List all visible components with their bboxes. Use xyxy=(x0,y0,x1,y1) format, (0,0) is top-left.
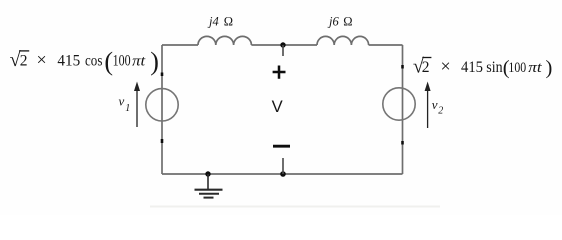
svg-text:1: 1 xyxy=(125,103,130,114)
ground xyxy=(207,174,209,189)
svg-text:V: V xyxy=(272,97,283,116)
svg-text:415: 415 xyxy=(57,53,80,70)
svg-text:415: 415 xyxy=(461,59,483,76)
source V2 circle xyxy=(383,88,415,120)
polarity tick upper right wire xyxy=(401,65,404,69)
V minus sign xyxy=(273,145,290,148)
polarity tick upper left wire xyxy=(161,73,164,77)
wire: top-left horizontal segment xyxy=(162,44,198,46)
polarity tick lower left wire xyxy=(161,139,164,143)
wire: segment between coil1 and mid node xyxy=(251,44,317,46)
wire: top-right horizontal segment xyxy=(369,44,403,46)
wire: bottom horizontal xyxy=(162,173,403,175)
faint scan artifact line at bottom xyxy=(150,206,440,208)
arrow v1 xyxy=(136,89,138,127)
node: ground junction dot xyxy=(205,171,210,176)
node A (top mid junction dot with stub) xyxy=(280,42,285,47)
svg-text:100: 100 xyxy=(113,53,131,70)
svg-text:100: 100 xyxy=(508,60,526,76)
V plus sign xyxy=(273,66,286,79)
svg-text:πt: πt xyxy=(132,54,146,70)
svg-text:): ) xyxy=(150,47,159,76)
wire: right branch vertical xyxy=(402,45,404,174)
inductor j6 (coil) xyxy=(317,36,369,45)
svg-text:Ω: Ω xyxy=(224,15,233,29)
arrow v2 xyxy=(427,89,429,128)
svg-text:): ) xyxy=(546,57,553,79)
svg-text:v: v xyxy=(432,97,438,112)
svg-text:j6: j6 xyxy=(327,15,339,29)
svg-text:2: 2 xyxy=(20,53,28,70)
svg-text:sin: sin xyxy=(486,59,503,76)
right source label: sqrt2 x 415 sin(100 pi t) xyxy=(413,56,552,79)
polarity tick lower right wire xyxy=(401,141,404,145)
node: bottom mid junction dot with stub up xyxy=(280,171,286,177)
svg-text:j4: j4 xyxy=(207,15,219,29)
svg-text:2: 2 xyxy=(422,59,430,76)
inductor j4 (coil) xyxy=(198,36,251,45)
svg-text:cos: cos xyxy=(85,53,102,70)
source V1 circle xyxy=(146,89,178,121)
svg-text:×: × xyxy=(37,49,47,69)
svg-text:Ω: Ω xyxy=(343,15,352,29)
svg-text:2: 2 xyxy=(438,105,443,116)
wire: left branch vertical xyxy=(161,45,163,174)
left source label: sqrt2 x 415 cos(100 pi t) xyxy=(10,47,159,76)
svg-text:v: v xyxy=(119,94,125,109)
svg-text:×: × xyxy=(441,56,451,76)
svg-text:πt: πt xyxy=(528,60,542,76)
